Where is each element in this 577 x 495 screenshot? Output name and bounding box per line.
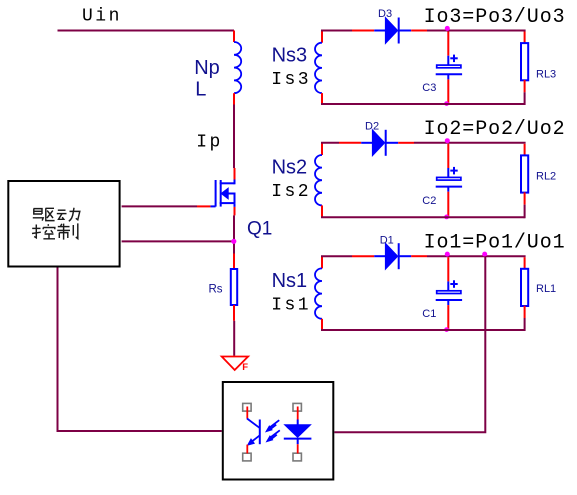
capacitor C1 polarized [436, 280, 462, 305]
svg-text:Io3=Po3/Uo3: Io3=Po3/Uo3 [424, 6, 566, 29]
resistor RL2 [521, 155, 528, 192]
pin cathode D2 [398, 142, 414, 144]
pin RL1 bottom [524, 306, 526, 318]
wire Rs to ground [233, 321, 235, 356]
pin Rs top [233, 254, 235, 269]
pin RL2 top [524, 144, 526, 155]
wire secondary 1 top left [321, 255, 352, 257]
pin gate Q1 [197, 205, 210, 207]
wire secondary 3 top right [427, 30, 526, 32]
junction bottom node 2 [444, 215, 449, 220]
svg-text:Is3: Is3 [271, 70, 311, 90]
wire source to Rs [233, 215, 235, 253]
pin C2 bottom [447, 192, 449, 217]
transistor Q1 N-MOSFET [210, 180, 234, 207]
optocoupler phototransistor [247, 419, 260, 446]
optocoupler light arrow 1 [266, 420, 279, 431]
wire feedback from Uo1 down to optocoupler [334, 256, 485, 432]
pin anode D1 [352, 255, 374, 257]
capacitor C2 polarized [436, 167, 462, 192]
optocoupler LED pin top [297, 407, 299, 420]
svg-text:RL3: RL3 [536, 68, 556, 80]
winding Ns2 secondary [321, 143, 323, 155]
svg-text:Ns2: Ns2 [272, 157, 308, 179]
optocoupler LED [284, 420, 312, 445]
junction bottom node 1 [444, 327, 449, 332]
wire secondary 1 bottom [321, 329, 525, 331]
svg-text:Ns1: Ns1 [272, 270, 308, 292]
resistor Rs [231, 269, 237, 305]
pin anode D3 [352, 30, 374, 32]
pin drain Q1 [234, 168, 236, 180]
optocoupler phototransistor pin top [246, 407, 248, 419]
diode D1 [374, 243, 411, 269]
wire secondary 3 top left [321, 30, 352, 32]
svg-text:Rs: Rs [209, 284, 223, 296]
svg-text:C2: C2 [422, 195, 436, 207]
ground power symbol F [222, 357, 248, 371]
pin Rs bottom [233, 305, 235, 321]
label drive control text line2 (kong zhi) [32, 223, 78, 239]
wire RL2 bottom corner [524, 205, 525, 218]
block drive control box [8, 181, 119, 267]
pin stub primary bottom [233, 93, 235, 104]
svg-text:L: L [195, 79, 206, 101]
winding Ns3 secondary [321, 31, 323, 43]
svg-text:Uin: Uin [82, 6, 122, 26]
svg-text:Io1=Po1/Uo1: Io1=Po1/Uo1 [424, 231, 566, 254]
wire primary to drain [233, 105, 235, 169]
pin C3 top [447, 32, 449, 56]
svg-text:Np: Np [194, 57, 220, 79]
pin RL3 top [524, 32, 526, 43]
junction bottom node 3 [444, 101, 449, 106]
winding Ns1 secondary [321, 256, 323, 268]
winding Np primary inductor [234, 42, 241, 93]
svg-text:Q1: Q1 [247, 219, 272, 240]
wire secondary 3 bottom [321, 103, 525, 105]
wire secondary 1 top right [427, 255, 526, 257]
junction output node 2 [445, 138, 450, 143]
svg-text:RL1: RL1 [536, 283, 556, 295]
svg-text:C1: C1 [422, 308, 436, 320]
pin RL2 bottom [524, 192, 526, 204]
junction feedback tap node Uo1 [482, 252, 487, 257]
optocoupler pad pin 4 (collector) [243, 403, 251, 411]
pin C1 top [447, 257, 449, 281]
resistor RL1 [521, 269, 528, 306]
wire control box bottom to optocoupler [58, 268, 222, 432]
optocoupler phototransistor pin bottom [246, 445, 248, 454]
wire RL1 bottom corner [524, 318, 525, 330]
wire RL3 bottom corner [524, 92, 525, 104]
junction output node 3 [445, 26, 450, 31]
optocoupler block box [223, 382, 333, 480]
diode D2 [361, 130, 398, 156]
svg-text:D1: D1 [380, 234, 394, 246]
svg-text:Ns3: Ns3 [272, 44, 308, 66]
svg-text:Io2=Po2/Uo2: Io2=Po2/Uo2 [424, 118, 566, 141]
junction output node 1 [445, 252, 450, 257]
pin C1 bottom [447, 305, 449, 329]
svg-text:D3: D3 [378, 8, 392, 20]
pin cathode D3 [411, 30, 427, 32]
pin C3 bottom [447, 79, 449, 103]
label drive control text line1 (qu dong) [33, 208, 80, 221]
wire Uin horizontal [58, 31, 234, 32]
svg-text:Ip: Ip [196, 133, 223, 153]
pin RL1 top [524, 257, 526, 268]
svg-text:Is1: Is1 [271, 296, 311, 316]
pin C2 top [447, 144, 449, 168]
pin stub primary top [233, 31, 235, 43]
optocoupler light arrow 2 [267, 430, 280, 441]
wire gate drive [122, 205, 197, 207]
wire secondary 2 bottom [321, 216, 525, 218]
svg-text:RL2: RL2 [536, 170, 556, 182]
resistor RL3 [521, 43, 528, 80]
optocoupler LED pin bottom [297, 444, 299, 453]
diode D3 [374, 18, 411, 44]
svg-text:F: F [242, 362, 248, 373]
pin source Q1 [234, 207, 236, 216]
pin cathode D1 [411, 255, 427, 257]
svg-text:Is2: Is2 [271, 182, 311, 202]
optocoupler pad pin 1 (anode) [293, 403, 301, 411]
wire secondary 2 top right [414, 142, 526, 144]
capacitor C3 polarized [436, 55, 462, 80]
svg-text:C3: C3 [422, 82, 436, 94]
pin RL3 bottom [524, 80, 526, 92]
optocoupler pad pin 2 (cathode) [293, 453, 301, 461]
svg-text:D2: D2 [365, 121, 379, 133]
optocoupler pad pin 3 (emitter) [243, 453, 251, 461]
pin anode D2 [339, 142, 361, 144]
wire secondary 2 top left [321, 142, 339, 144]
wire feedback sense from control box [122, 240, 233, 242]
junction source sense node [231, 239, 236, 244]
